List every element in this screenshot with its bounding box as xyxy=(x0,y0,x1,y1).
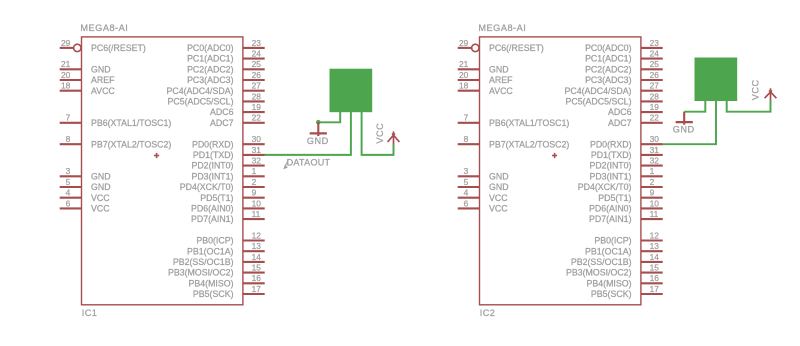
svg-text:32: 32 xyxy=(252,156,262,166)
origin cross of IC1 xyxy=(154,153,159,158)
svg-text:PC3(ADC3): PC3(ADC3) xyxy=(187,75,234,85)
svg-text:PD7(AIN1): PD7(AIN1) xyxy=(191,214,234,224)
svg-text:GND: GND xyxy=(91,171,111,181)
symbol body IC2 xyxy=(480,37,641,305)
svg-text:1: 1 xyxy=(650,166,655,176)
svg-text:AREF: AREF xyxy=(489,75,513,85)
svg-text:32: 32 xyxy=(650,156,660,166)
wire: sensor S1 left pin down xyxy=(318,112,340,122)
wire: sensor S2 left pin to ground xyxy=(684,101,705,112)
wire: DATAOUT net from pin 31 to sensor S1 middle pin xyxy=(264,112,351,155)
pin 7 PB6(XTAL1/TOSC1) xyxy=(60,113,172,128)
VCC symbol arrow xyxy=(765,88,777,100)
svg-text:11: 11 xyxy=(252,209,261,219)
pin 20 AREF xyxy=(458,70,513,85)
pin 21 GND xyxy=(60,59,111,74)
svg-text:12: 12 xyxy=(252,230,262,240)
pin 21 GND xyxy=(458,59,509,74)
pin 6 VCC xyxy=(60,198,111,213)
svg-text:18: 18 xyxy=(459,81,469,91)
svg-text:GND: GND xyxy=(91,64,111,74)
svg-text:GND: GND xyxy=(673,125,695,135)
svg-text:16: 16 xyxy=(252,273,262,283)
pin 6 VCC xyxy=(458,198,509,213)
pin 20 AREF xyxy=(60,70,115,85)
svg-text:VCC: VCC xyxy=(751,79,761,100)
ground symbol pin xyxy=(317,122,319,136)
pin 30 PD0(RXD) xyxy=(590,134,663,149)
pin 32 PD2(INT0) xyxy=(589,156,662,171)
svg-text:MEGA8-AI: MEGA8-AI xyxy=(478,23,526,33)
svg-text:PB0(ICP): PB0(ICP) xyxy=(196,236,233,246)
pin 9 PD5(T1) xyxy=(598,188,662,203)
svg-text:PD1(TXD): PD1(TXD) xyxy=(193,150,234,160)
pin 4 VCC xyxy=(60,188,111,203)
svg-text:DATAOUT: DATAOUT xyxy=(287,157,331,167)
pin 4 VCC xyxy=(458,188,509,203)
svg-text:PB6(XTAL1/TOSC1): PB6(XTAL1/TOSC1) xyxy=(489,118,569,128)
svg-text:8: 8 xyxy=(464,134,469,144)
pin 29 PC6(/RESET) xyxy=(458,38,544,53)
wire: sensor S1 right pin to VCC xyxy=(362,112,394,155)
svg-text:2: 2 xyxy=(650,177,655,187)
pin 2 PD4(XCK/T0) xyxy=(578,177,663,192)
pin 12 PB0(ICP) xyxy=(196,230,264,245)
pin 10 PD6(AIN0) xyxy=(589,198,663,213)
svg-text:28: 28 xyxy=(252,91,262,101)
svg-text:26: 26 xyxy=(650,70,660,80)
pin 19 ADC6 xyxy=(210,102,265,117)
svg-text:6: 6 xyxy=(66,198,71,208)
svg-text:9: 9 xyxy=(650,188,655,198)
svg-text:VCC: VCC xyxy=(375,123,385,144)
label origin flag xyxy=(284,160,288,169)
pin 26 PC3(ADC3) xyxy=(187,70,265,85)
svg-text:20: 20 xyxy=(459,70,469,80)
svg-text:PC1(ADC1): PC1(ADC1) xyxy=(585,54,632,64)
svg-text:4: 4 xyxy=(464,188,469,198)
svg-text:3: 3 xyxy=(66,166,71,176)
svg-text:PB3(MOSI/OC2): PB3(MOSI/OC2) xyxy=(566,268,632,278)
svg-text:PC0(ADC0): PC0(ADC0) xyxy=(585,43,632,53)
svg-text:21: 21 xyxy=(459,59,469,69)
svg-text:21: 21 xyxy=(61,59,71,69)
svg-text:PB4(MISO): PB4(MISO) xyxy=(587,278,632,288)
svg-text:PD3(INT1): PD3(INT1) xyxy=(191,171,233,181)
svg-text:ADC7: ADC7 xyxy=(608,118,632,128)
svg-text:PC4(ADC4/SDA): PC4(ADC4/SDA) xyxy=(565,86,632,96)
svg-text:18: 18 xyxy=(61,81,71,91)
svg-text:PD4(XCK/T0): PD4(XCK/T0) xyxy=(578,182,632,192)
svg-text:PB0(ICP): PB0(ICP) xyxy=(594,236,631,246)
svg-text:PC2(ADC2): PC2(ADC2) xyxy=(585,64,632,74)
pin 7 PB6(XTAL1/TOSC1) xyxy=(458,113,570,128)
pin 13 PB1(OC1A) xyxy=(585,241,663,256)
ground bar xyxy=(310,132,327,134)
pin 16 PB4(MISO) xyxy=(189,273,265,288)
pin 29 PC6(/RESET) xyxy=(60,38,146,53)
svg-text:16: 16 xyxy=(650,273,660,283)
svg-text:PD5(T1): PD5(T1) xyxy=(200,193,233,203)
pin 19 ADC6 xyxy=(608,102,663,117)
svg-text:10: 10 xyxy=(650,198,660,208)
svg-text:GND: GND xyxy=(489,182,509,192)
pin 31 PD1(TXD) xyxy=(591,145,663,160)
svg-text:27: 27 xyxy=(252,81,262,91)
svg-text:PB4(MISO): PB4(MISO) xyxy=(189,278,234,288)
svg-text:13: 13 xyxy=(252,241,262,251)
svg-text:PC1(ADC1): PC1(ADC1) xyxy=(187,54,234,64)
svg-text:7: 7 xyxy=(464,113,469,123)
svg-text:VCC: VCC xyxy=(489,193,508,203)
svg-text:PB1(OC1A): PB1(OC1A) xyxy=(585,246,632,256)
svg-text:PD2(INT0): PD2(INT0) xyxy=(191,161,233,171)
pin 10 PD6(AIN0) xyxy=(191,198,265,213)
svg-text:PC0(ADC0): PC0(ADC0) xyxy=(187,43,234,53)
svg-text:2: 2 xyxy=(252,177,257,187)
pin 18 AVCC xyxy=(458,81,514,96)
pin 24 PC1(ADC1) xyxy=(187,49,265,64)
pin 23 PC0(ADC0) xyxy=(187,38,265,53)
svg-text:IC1: IC1 xyxy=(82,308,98,318)
pin 18 AVCC xyxy=(60,81,116,96)
svg-text:26: 26 xyxy=(252,70,262,80)
pin 27 PC4(ADC4/SDA) xyxy=(167,81,265,96)
svg-text:PD3(INT1): PD3(INT1) xyxy=(589,171,631,181)
svg-text:PD6(AIN0): PD6(AIN0) xyxy=(589,204,632,214)
pin 22 ADC7 xyxy=(210,113,265,128)
svg-text:AVCC: AVCC xyxy=(489,86,513,96)
pin 32 PD2(INT0) xyxy=(191,156,264,171)
pin 17 PB5(SCK) xyxy=(591,284,663,299)
svg-text:31: 31 xyxy=(252,145,262,155)
svg-text:PD6(AIN0): PD6(AIN0) xyxy=(191,204,234,214)
svg-text:GND: GND xyxy=(489,64,509,74)
svg-text:IC2: IC2 xyxy=(480,308,496,318)
IC IC1 MEGA8-AI xyxy=(60,23,265,318)
svg-text:PB5(SCK): PB5(SCK) xyxy=(193,289,234,299)
svg-text:23: 23 xyxy=(650,38,660,48)
pin 25 PC2(ADC2) xyxy=(585,59,663,74)
svg-text:10: 10 xyxy=(252,198,262,208)
pin 15 PB3(MOSI/OC2) xyxy=(566,263,663,278)
pin 1 PD3(INT1) xyxy=(191,166,264,181)
svg-text:29: 29 xyxy=(459,38,469,48)
svg-text:PB7(XTAL2/TOSC2): PB7(XTAL2/TOSC2) xyxy=(91,139,171,149)
svg-text:20: 20 xyxy=(61,70,71,80)
pin 2 PD4(XCK/T0) xyxy=(180,177,265,192)
svg-text:AVCC: AVCC xyxy=(91,86,115,96)
sensor module S1 (green block) xyxy=(330,69,373,113)
svg-text:VCC: VCC xyxy=(91,204,110,214)
svg-text:PC3(ADC3): PC3(ADC3) xyxy=(585,75,632,85)
svg-text:PD7(AIN1): PD7(AIN1) xyxy=(589,214,632,224)
pin 24 PC1(ADC1) xyxy=(585,49,663,64)
pin 30 PD0(RXD) xyxy=(192,134,265,149)
svg-text:PB1(OC1A): PB1(OC1A) xyxy=(187,246,234,256)
origin cross of IC2 xyxy=(552,153,557,158)
svg-text:17: 17 xyxy=(650,284,660,294)
svg-text:GND: GND xyxy=(307,136,329,146)
svg-text:PC4(ADC4/SDA): PC4(ADC4/SDA) xyxy=(167,86,234,96)
svg-text:3: 3 xyxy=(464,166,469,176)
svg-text:PB6(XTAL1/TOSC1): PB6(XTAL1/TOSC1) xyxy=(91,118,171,128)
pin 5 GND xyxy=(60,177,111,192)
svg-text:25: 25 xyxy=(650,59,660,69)
svg-text:PD5(T1): PD5(T1) xyxy=(598,193,631,203)
pin 25 PC2(ADC2) xyxy=(187,59,265,74)
svg-text:GND: GND xyxy=(91,182,111,192)
svg-text:8: 8 xyxy=(66,134,71,144)
svg-text:24: 24 xyxy=(650,49,660,59)
svg-text:MEGA8-AI: MEGA8-AI xyxy=(80,23,128,33)
svg-text:5: 5 xyxy=(66,177,71,187)
svg-text:PB5(SCK): PB5(SCK) xyxy=(591,289,632,299)
pin 14 PB2(SS/OC1B) xyxy=(173,252,265,267)
svg-text:PD2(INT0): PD2(INT0) xyxy=(589,161,631,171)
VCC symbol arrow xyxy=(388,131,400,144)
pin 9 PD5(T1) xyxy=(200,188,264,203)
svg-text:PB2(SS/OC1B): PB2(SS/OC1B) xyxy=(173,257,234,267)
pin 23 PC0(ADC0) xyxy=(585,38,663,53)
svg-text:27: 27 xyxy=(650,81,660,91)
ground bar xyxy=(676,121,693,123)
pin 3 GND xyxy=(458,166,509,181)
svg-text:17: 17 xyxy=(252,284,262,294)
svg-text:11: 11 xyxy=(650,209,659,219)
svg-text:30: 30 xyxy=(252,134,262,144)
svg-text:9: 9 xyxy=(252,188,257,198)
pin 5 GND xyxy=(458,177,509,192)
pin 28 PC5(ADC5/SCL) xyxy=(566,91,663,106)
pin 1 PD3(INT1) xyxy=(589,166,662,181)
pin 28 PC5(ADC5/SCL) xyxy=(168,91,265,106)
svg-text:ADC6: ADC6 xyxy=(210,107,234,117)
pin 11 PD7(AIN1) xyxy=(589,209,663,224)
wire: net from pin 30 to sensor S2 middle pin xyxy=(662,101,716,144)
svg-text:VCC: VCC xyxy=(489,204,508,214)
svg-text:22: 22 xyxy=(650,113,660,123)
svg-text:31: 31 xyxy=(650,145,660,155)
pin 26 PC3(ADC3) xyxy=(585,70,663,85)
symbol body IC1 xyxy=(82,37,243,305)
svg-text:PC6(/RESET): PC6(/RESET) xyxy=(91,43,146,53)
pin 11 PD7(AIN1) xyxy=(191,209,265,224)
svg-text:GND: GND xyxy=(489,171,509,181)
svg-text:13: 13 xyxy=(650,241,660,251)
pin 22 ADC7 xyxy=(608,113,663,128)
sensor module S2 (green block) xyxy=(695,58,738,102)
svg-text:PC5(ADC5/SCL): PC5(ADC5/SCL) xyxy=(566,97,632,107)
ground symbol pin xyxy=(683,112,685,125)
svg-text:24: 24 xyxy=(252,49,262,59)
wire: sensor S2 right pin to VCC xyxy=(727,100,771,111)
svg-text:28: 28 xyxy=(650,91,660,101)
svg-text:25: 25 xyxy=(252,59,262,69)
svg-text:PD4(XCK/T0): PD4(XCK/T0) xyxy=(180,182,234,192)
svg-text:15: 15 xyxy=(252,263,262,273)
pin 3 GND xyxy=(60,166,111,181)
pin 8 PB7(XTAL2/TOSC2) xyxy=(60,134,172,149)
svg-text:PC6(/RESET): PC6(/RESET) xyxy=(489,43,544,53)
svg-text:PD0(RXD): PD0(RXD) xyxy=(192,139,234,149)
pin 31 PD1(TXD) xyxy=(193,145,265,160)
svg-text:PB3(MOSI/OC2): PB3(MOSI/OC2) xyxy=(168,268,234,278)
svg-text:22: 22 xyxy=(252,113,262,123)
svg-text:29: 29 xyxy=(61,38,71,48)
svg-text:1: 1 xyxy=(252,166,257,176)
svg-text:19: 19 xyxy=(650,102,660,112)
svg-text:5: 5 xyxy=(464,177,469,187)
svg-text:ADC6: ADC6 xyxy=(608,107,632,117)
svg-text:PD0(RXD): PD0(RXD) xyxy=(590,139,632,149)
svg-text:19: 19 xyxy=(252,102,262,112)
svg-text:14: 14 xyxy=(252,252,262,262)
svg-text:VCC: VCC xyxy=(91,193,110,203)
svg-text:PC5(ADC5/SCL): PC5(ADC5/SCL) xyxy=(168,97,234,107)
svg-text:PB7(XTAL2/TOSC2): PB7(XTAL2/TOSC2) xyxy=(489,139,569,149)
pin 14 PB2(SS/OC1B) xyxy=(571,252,663,267)
pin 13 PB1(OC1A) xyxy=(187,241,265,256)
svg-text:AREF: AREF xyxy=(91,75,115,85)
junction dot xyxy=(316,120,321,125)
svg-text:14: 14 xyxy=(650,252,660,262)
svg-text:4: 4 xyxy=(66,188,71,198)
pin 12 PB0(ICP) xyxy=(594,230,662,245)
pin 17 PB5(SCK) xyxy=(193,284,265,299)
svg-text:7: 7 xyxy=(66,113,71,123)
svg-text:PB2(SS/OC1B): PB2(SS/OC1B) xyxy=(571,257,632,267)
pin 15 PB3(MOSI/OC2) xyxy=(168,263,265,278)
svg-text:30: 30 xyxy=(650,134,660,144)
svg-text:PC2(ADC2): PC2(ADC2) xyxy=(187,64,234,74)
svg-text:12: 12 xyxy=(650,230,660,240)
IC IC2 MEGA8-AI xyxy=(458,23,663,318)
pin 27 PC4(ADC4/SDA) xyxy=(565,81,663,96)
svg-text:PD1(TXD): PD1(TXD) xyxy=(591,150,632,160)
pin 16 PB4(MISO) xyxy=(587,273,663,288)
pin 8 PB7(XTAL2/TOSC2) xyxy=(458,134,570,149)
svg-text:ADC7: ADC7 xyxy=(210,118,234,128)
svg-text:15: 15 xyxy=(650,263,660,273)
svg-text:23: 23 xyxy=(252,38,262,48)
svg-text:6: 6 xyxy=(464,198,469,208)
